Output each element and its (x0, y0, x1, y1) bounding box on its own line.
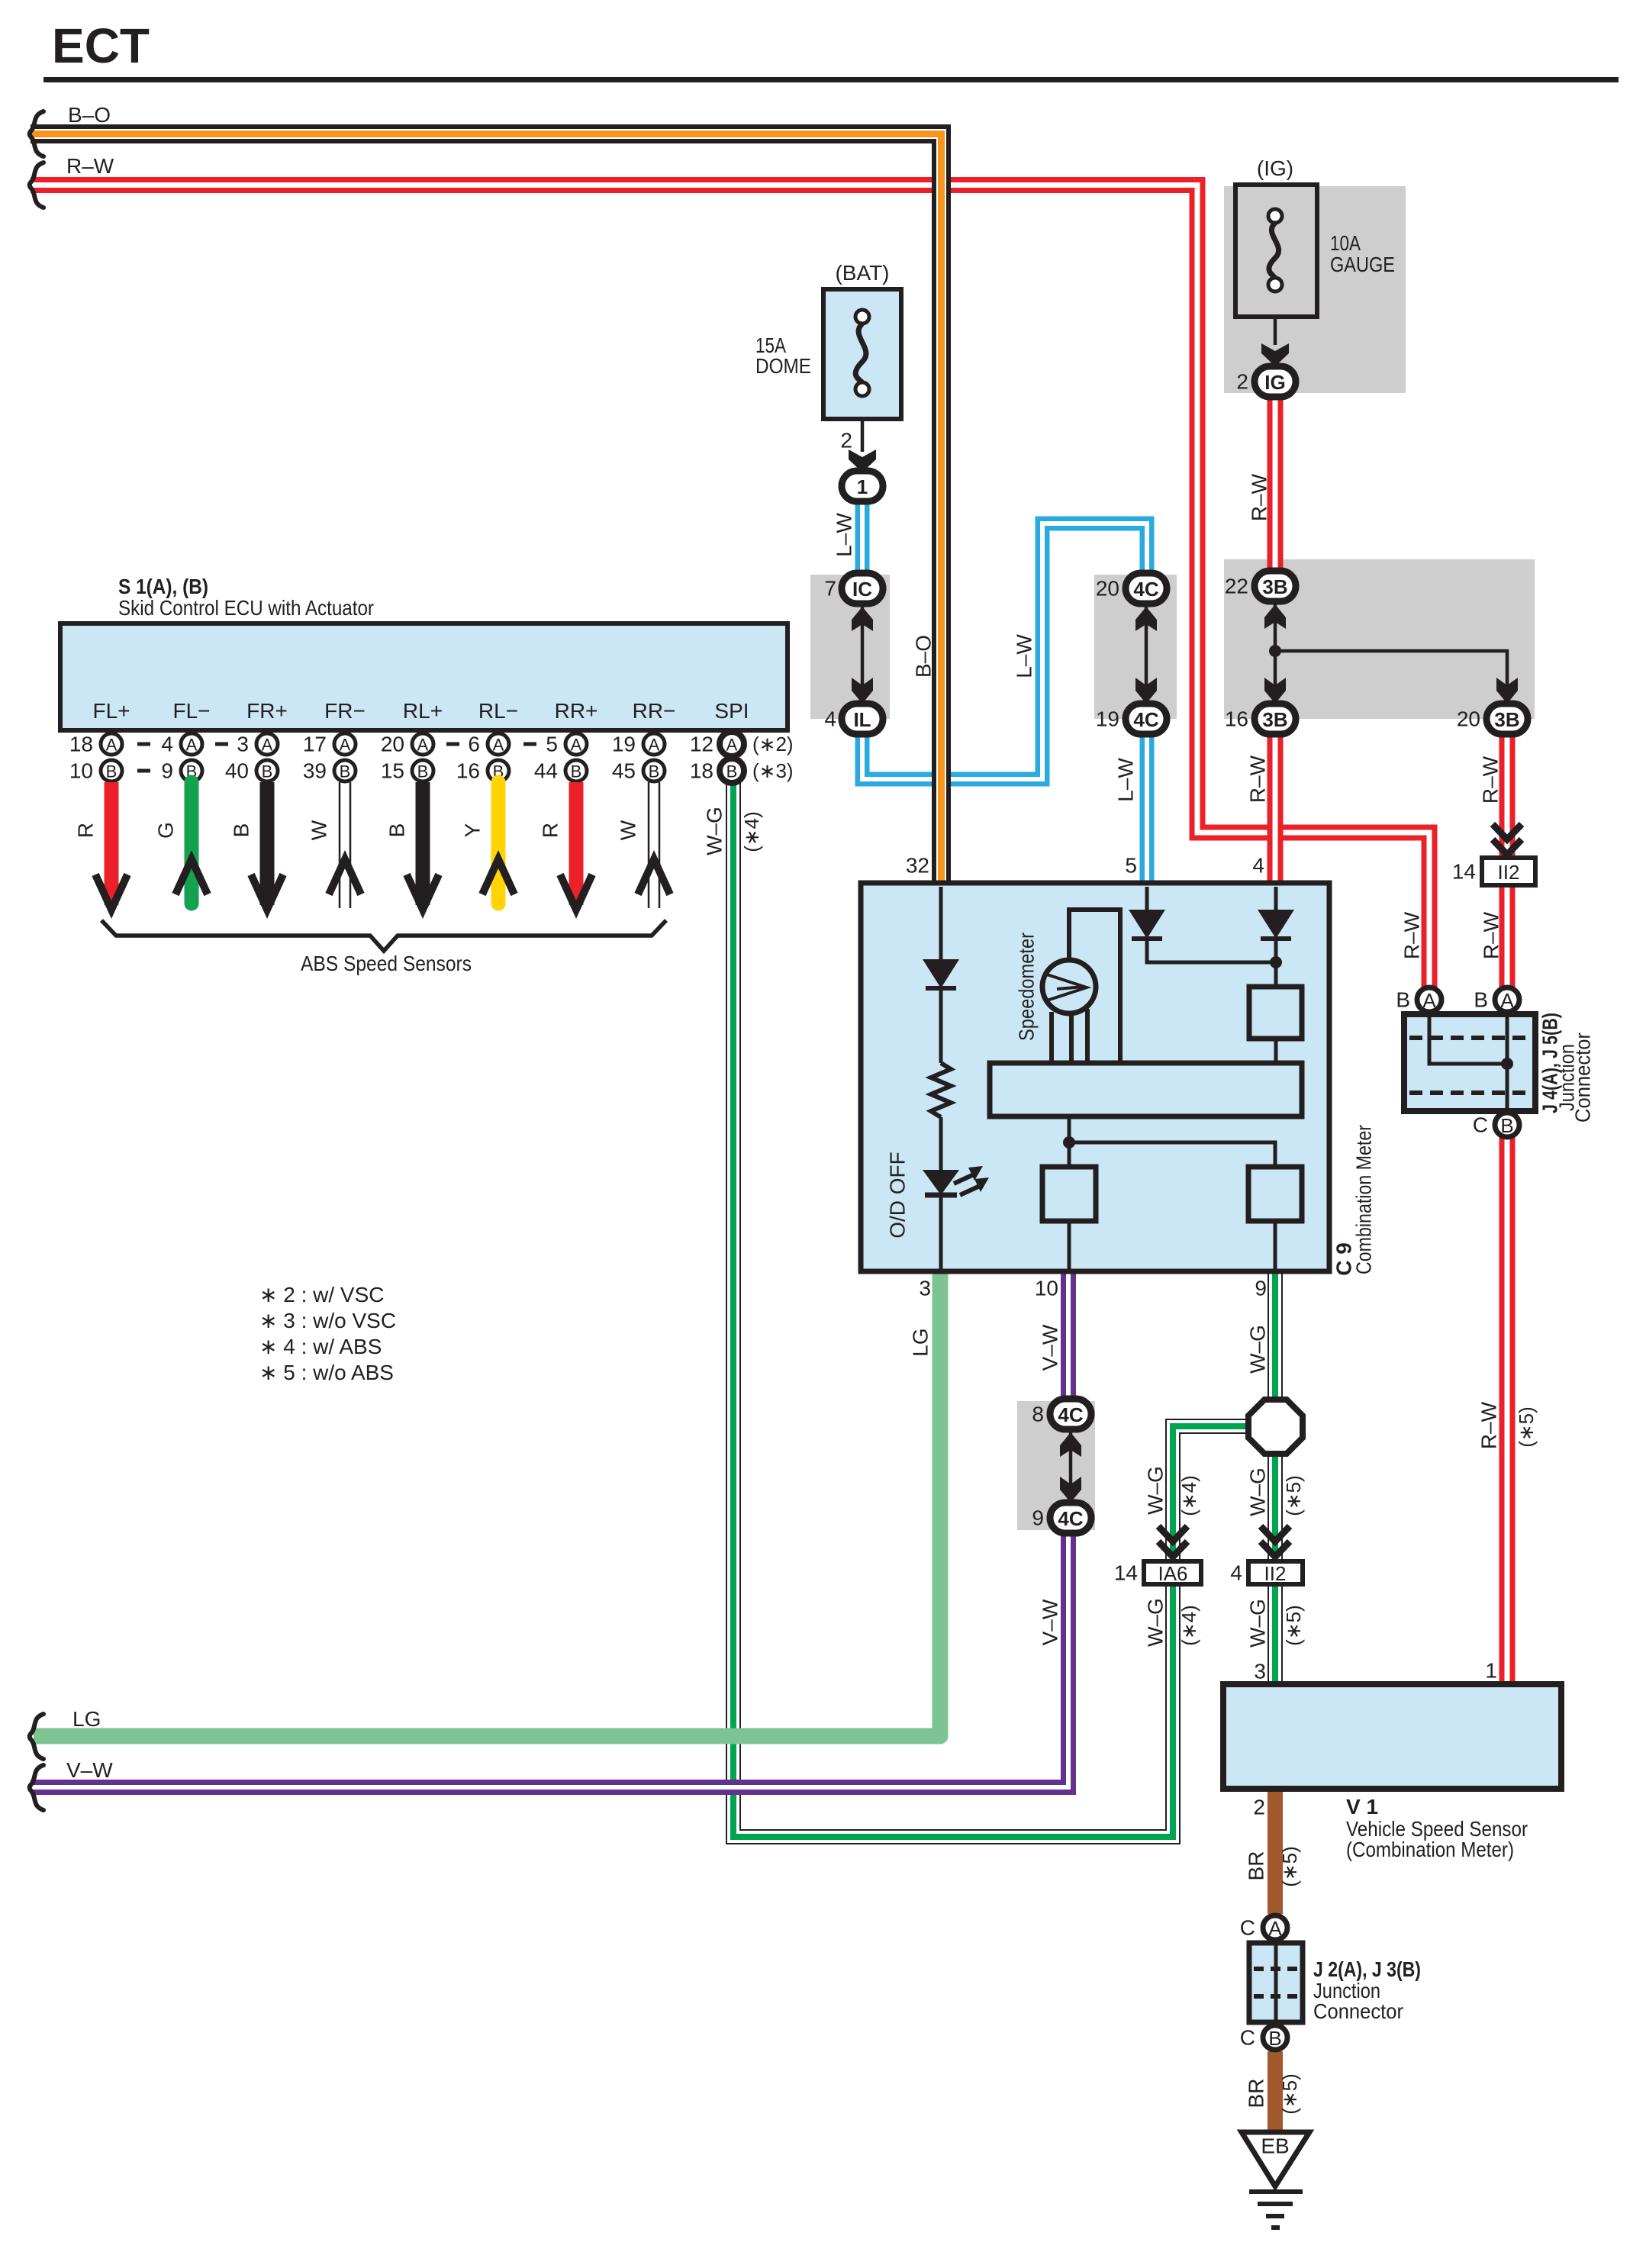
svg-text:4C: 4C (1133, 578, 1158, 601)
svg-text:A: A (1500, 989, 1514, 1012)
svg-text:R–W: R–W (1248, 473, 1271, 521)
svg-text:44: 44 (534, 759, 558, 783)
CONNECTORBLOCKS (824, 571, 1528, 1533)
svg-text:FR+: FR+ (246, 699, 288, 723)
svg-text:18: 18 (690, 759, 713, 783)
LEFTLABELS (30, 103, 114, 1810)
svg-text:ABS Speed Sensors: ABS Speed Sensors (301, 952, 472, 975)
V1BLOCK (1223, 1659, 1561, 1862)
svg-text:ECT: ECT (52, 18, 150, 73)
svg-text:12: 12 (690, 733, 713, 756)
gray block 3B (1224, 559, 1535, 719)
V1 vehicle speed sensor block (1223, 1684, 1561, 1789)
svg-text:W–G: W–G (1246, 1325, 1270, 1374)
svg-text:B: B (1474, 988, 1488, 1012)
svg-text:RL+: RL+ (403, 699, 443, 723)
connector IA6 (1114, 1561, 1201, 1586)
svg-text:3: 3 (919, 1277, 931, 1300)
svg-text:9: 9 (161, 759, 173, 783)
svg-text:10: 10 (69, 759, 93, 783)
wire box to pin 10 (1068, 1221, 1071, 1269)
svg-text:3: 3 (1254, 1660, 1266, 1683)
ECUPINS (92, 699, 749, 723)
wire L-W BAT fuse to IC (855, 498, 870, 576)
svg-text:R: R (539, 823, 562, 838)
wire box to bar (1274, 1039, 1278, 1063)
svg-text:IG: IG (1264, 371, 1285, 394)
JUNCTION45 (1396, 987, 1594, 1137)
connector IC/IL (824, 573, 883, 734)
wire V-W meter pin 10 to 4C(8) (1061, 1267, 1076, 1400)
svg-text:4C: 4C (1133, 708, 1158, 731)
svg-text:W–G: W–G (1246, 1599, 1270, 1648)
svg-text:7: 7 (824, 577, 836, 601)
dashed line lower j23 (1254, 1994, 1298, 1999)
svg-text:14: 14 (1452, 860, 1476, 884)
wire B FR+ (230, 782, 284, 910)
wire BR V1 pin 2 to junction A (1268, 1789, 1283, 1914)
svg-text:SPI: SPI (714, 699, 749, 723)
meter pin 5 line (1145, 887, 1149, 910)
svg-text:B: B (385, 823, 409, 838)
wire Y RL- (461, 782, 515, 904)
ECUWIRES (74, 782, 764, 975)
wire B-O horizontal and down to meter pin 32 (31, 134, 942, 886)
internal wire left (1429, 1017, 1507, 1064)
svg-text:32: 32 (906, 854, 929, 878)
ECUCIRCLES (69, 732, 794, 783)
svg-text:BR: BR (1245, 1851, 1268, 1881)
TITLE (43, 18, 1619, 82)
ECU S1 block (60, 623, 788, 730)
svg-text:4: 4 (161, 733, 173, 756)
speedometer (1042, 960, 1096, 1013)
box upper right (1249, 987, 1302, 1039)
wire L-W IL to 4C(20) routed around (862, 524, 1147, 779)
svg-text:A: A (340, 736, 351, 755)
wire R RR+ (539, 782, 593, 910)
wire W-G octagon down to II2(4) (1268, 1452, 1283, 1563)
svg-text:∗ 3 : w/o VSC: ∗ 3 : w/o VSC (259, 1309, 396, 1332)
NOTES (259, 1283, 396, 1384)
svg-text:B: B (1500, 1114, 1513, 1137)
wire V-W 4C(9) down and left to edge (31, 1532, 1068, 1787)
svg-text:(∗2): (∗2) (752, 733, 794, 755)
chevron IA6 (1158, 1526, 1187, 1557)
svg-text:DOME: DOME (755, 354, 811, 378)
svg-text:IA6: IA6 (1158, 1562, 1187, 1585)
svg-text:2: 2 (1253, 1796, 1265, 1819)
fuse 10A GAUGE (IG) (1235, 156, 1395, 397)
svg-text:C: C (1240, 2026, 1255, 2050)
svg-text:A: A (106, 736, 118, 755)
pin circle A right (1495, 987, 1519, 1012)
svg-text:A: A (186, 736, 198, 755)
connector II2 14 (1452, 858, 1535, 885)
svg-text:5: 5 (1125, 854, 1137, 878)
wire R-W II2(14) to junction connector A right (1499, 885, 1516, 987)
wire B RL+ (385, 782, 440, 910)
svg-text:A: A (493, 736, 504, 755)
internal bar (990, 1063, 1302, 1116)
pin dashes (137, 744, 536, 771)
svg-text:Speedometer: Speedometer (1015, 933, 1039, 1041)
pin numbers row B (69, 759, 794, 783)
svg-text:BR: BR (1245, 2079, 1268, 2109)
svg-text:IC: IC (852, 578, 872, 601)
svg-text:L–W: L–W (1114, 758, 1138, 802)
svg-text:8: 8 (1032, 1403, 1044, 1426)
svg-text:R: R (74, 823, 98, 838)
wire bar down (1068, 1116, 1071, 1167)
internal wire right (1506, 1017, 1509, 1108)
pin circle A left (1417, 987, 1441, 1012)
box lower left (1042, 1167, 1096, 1221)
svg-text:B: B (649, 762, 660, 781)
junction connector J2 J3 block (1249, 1943, 1303, 2022)
ground EB triangle (1242, 2132, 1309, 2186)
wires speedometer to bar (1052, 1009, 1087, 1063)
wire W RR- (617, 782, 671, 908)
svg-text:4: 4 (1252, 854, 1264, 878)
svg-text:FL+: FL+ (92, 699, 130, 723)
diode D2 pin5 (1129, 910, 1165, 939)
svg-text:L–W: L–W (1013, 634, 1036, 678)
svg-text:W–G: W–G (703, 807, 726, 855)
svg-text:1: 1 (1485, 1659, 1497, 1683)
wire G FL- (154, 782, 208, 904)
svg-text:B–O: B–O (68, 103, 111, 127)
svg-text:L–W: L–W (833, 513, 856, 557)
svg-text:B: B (571, 762, 582, 781)
ECU (60, 575, 788, 730)
wire R-W (*5) junction connector B to V1 pin 1 (1499, 1137, 1516, 1687)
box lower right (1248, 1167, 1302, 1221)
wire W-G II2(4) to V1 pin 3 (1268, 1585, 1283, 1687)
svg-text:B: B (417, 762, 429, 781)
dashed line upper (1409, 1036, 1530, 1040)
svg-text:4: 4 (1230, 1561, 1242, 1585)
connector II2 4 (1230, 1561, 1303, 1586)
meter pin 32 line (939, 887, 943, 959)
svg-text:(IG): (IG) (1257, 156, 1293, 180)
wire diode D2 to node (1147, 939, 1276, 962)
svg-text:9: 9 (1032, 1506, 1044, 1530)
junction connector J4 J5 block (1404, 1014, 1535, 1111)
svg-text:Connector: Connector (1571, 1033, 1595, 1123)
fuse 15A DOME (BAT) (755, 261, 901, 501)
svg-text:R–W: R–W (1480, 911, 1503, 959)
GROUND (1242, 2132, 1309, 2228)
svg-text:3: 3 (237, 733, 249, 756)
WIRELABELS (833, 473, 1538, 2114)
wire box to pin 9 (1274, 1221, 1277, 1269)
svg-text:(∗5): (∗5) (1282, 1475, 1305, 1516)
svg-text:(∗5): (∗5) (1278, 1846, 1301, 1887)
combination meter C9 block (861, 883, 1329, 1271)
svg-text:C: C (1240, 1916, 1255, 1940)
wire R-W 3B(20) to II2 chevron (1499, 733, 1516, 858)
svg-text:II2: II2 (1264, 1562, 1287, 1585)
gray block IC/IL (810, 575, 890, 719)
pin numbers row A (69, 733, 794, 756)
svg-text:(Combination Meter): (Combination Meter) (1346, 1838, 1514, 1861)
brace LG (30, 1714, 43, 1759)
svg-text:B: B (726, 762, 738, 781)
wire R-W main horizontal to junction connector A (31, 185, 1429, 988)
svg-text:14: 14 (1114, 1561, 1138, 1585)
pin circles row B (101, 759, 744, 783)
svg-text:A: A (571, 736, 582, 755)
svg-text:A: A (417, 736, 429, 755)
wire BR junction B to EB ground (1268, 2051, 1283, 2132)
svg-text:9: 9 (1255, 1277, 1267, 1300)
svg-text:10A: 10A (1330, 231, 1361, 255)
svg-text:Combination Meter: Combination Meter (1352, 1125, 1376, 1274)
svg-text:1: 1 (857, 475, 868, 498)
svg-text:R–W: R–W (1246, 755, 1270, 803)
svg-text:V–W: V–W (1039, 1599, 1062, 1645)
svg-text:Connector: Connector (1313, 1999, 1403, 2023)
svg-text:20: 20 (1457, 707, 1480, 731)
svg-text:V–W: V–W (66, 1758, 113, 1782)
svg-text:15: 15 (381, 759, 404, 783)
dashed line lower (1409, 1091, 1530, 1095)
svg-text:W: W (617, 820, 640, 840)
svg-text:(∗4): (∗4) (740, 811, 763, 852)
wire W FR- (308, 782, 362, 908)
resistor (931, 1063, 951, 1117)
chevron II2 4 (1261, 1526, 1290, 1557)
svg-text:(∗4): (∗4) (1177, 1605, 1200, 1646)
FUSES (755, 156, 1395, 501)
gray block IG fuse (1224, 186, 1406, 393)
node dot pin4 (1270, 956, 1282, 968)
brace V-W (30, 1765, 43, 1810)
connector 4C 20/19 (1096, 573, 1167, 734)
svg-text:S 1(A), (B): S 1(A), (B) (118, 575, 208, 598)
wire to resistor (939, 988, 943, 1063)
wire R-W IG oval to 3B(22) (1268, 395, 1284, 572)
svg-text:19: 19 (612, 733, 636, 756)
svg-text:5: 5 (546, 733, 558, 756)
svg-text:B: B (230, 823, 253, 838)
octagon splice (1248, 1400, 1303, 1454)
ground bars (1249, 2189, 1303, 2194)
svg-text:Skid Control ECU with Actuator: Skid Control ECU with Actuator (118, 596, 374, 620)
svg-text:A: A (1268, 1917, 1282, 1940)
svg-text:B: B (340, 762, 351, 781)
svg-text:∗ 5 : w/o ABS: ∗ 5 : w/o ABS (259, 1361, 394, 1384)
wire node to right box (1069, 1142, 1275, 1167)
node dot below bar (1063, 1136, 1075, 1148)
svg-text:∗ 2 : w/ VSC: ∗ 2 : w/ VSC (259, 1283, 385, 1306)
svg-text:3B: 3B (1262, 575, 1287, 598)
svg-text:16: 16 (1225, 707, 1248, 731)
METER (861, 883, 1376, 1276)
svg-text:LG: LG (72, 1707, 101, 1731)
svg-text:(BAT): (BAT) (835, 261, 889, 285)
svg-text:2: 2 (840, 429, 852, 453)
svg-text:B: B (1396, 988, 1410, 1012)
internal vertical line j23 (1274, 1943, 1278, 2022)
pin circles row A (101, 732, 744, 756)
svg-text:R–W: R–W (1477, 1401, 1501, 1449)
svg-text:20: 20 (381, 733, 404, 756)
svg-text:40: 40 (225, 759, 249, 783)
svg-text:20: 20 (1096, 577, 1119, 601)
svg-text:4C: 4C (1058, 1403, 1083, 1426)
svg-text:RL−: RL− (478, 699, 518, 723)
svg-text:10: 10 (1035, 1277, 1058, 1300)
wire diode D3 down (1274, 939, 1278, 987)
connector 4C 8/9 lower (1032, 1399, 1091, 1533)
title rule (43, 77, 1619, 82)
svg-text:4C: 4C (1058, 1507, 1083, 1530)
svg-text:19: 19 (1096, 707, 1119, 731)
svg-text:II2: II2 (1498, 861, 1520, 884)
svg-text:V 1: V 1 (1346, 1795, 1378, 1819)
gray block 4C top (1094, 575, 1177, 719)
svg-text:W: W (308, 820, 331, 840)
svg-text:Y: Y (461, 823, 485, 837)
svg-text:W–G: W–G (1246, 1467, 1270, 1516)
svg-text:17: 17 (303, 733, 327, 756)
svg-text:FR−: FR− (324, 699, 366, 723)
GRAYRECTS (810, 186, 1535, 1530)
wire W-G (*4) SPI B to IA6 routed bottom (733, 782, 1173, 1837)
svg-text:G: G (154, 822, 178, 839)
diode D3 pin4 (1258, 910, 1294, 939)
svg-text:∗ 4 : w/ ABS: ∗ 4 : w/ ABS (259, 1335, 382, 1358)
svg-text:4: 4 (824, 707, 836, 731)
svg-text:B–O: B–O (912, 635, 936, 678)
wire LED to pin 3 (939, 1197, 943, 1269)
svg-text:A: A (262, 736, 273, 755)
svg-text:LG: LG (909, 1328, 933, 1356)
svg-text:GAUGE: GAUGE (1330, 253, 1395, 276)
wire LG meter pin 3 to left edge (34, 1267, 940, 1736)
svg-text:3B: 3B (1262, 708, 1287, 731)
METERINTERNALS (886, 887, 1303, 1269)
svg-text:18: 18 (69, 733, 93, 756)
svg-text:W–G: W–G (1144, 1598, 1168, 1647)
svg-text:A: A (1422, 989, 1436, 1012)
wire to LED (939, 1117, 943, 1170)
internal node dot (1501, 1058, 1513, 1070)
svg-text:22: 22 (1225, 575, 1248, 598)
gray block 4C lower (1017, 1401, 1095, 1530)
svg-text:C: C (1473, 1113, 1488, 1137)
svg-text:FL−: FL− (172, 699, 210, 723)
wire W-G octagon left branch to IA6 (1173, 1426, 1250, 1563)
meter pin 4 line (1274, 887, 1278, 910)
pin circle A j23 (1263, 1915, 1287, 1940)
diode D1 O/D (923, 959, 959, 988)
svg-text:B: B (1268, 2027, 1281, 2050)
brace R-W (30, 163, 43, 208)
svg-text:3B: 3B (1494, 708, 1519, 731)
svg-text:B: B (262, 762, 273, 781)
svg-text:EB: EB (1261, 2134, 1289, 2158)
LED O/D OFF (923, 1166, 989, 1195)
wire R-W 3B(16) to meter pin 4 (1268, 733, 1284, 885)
chevron II2 14 (1493, 824, 1522, 855)
brace B-O (30, 111, 43, 156)
svg-text:(∗5): (∗5) (1278, 2073, 1301, 2115)
svg-text:IL: IL (853, 708, 871, 731)
wire speedometer top loop (1069, 910, 1120, 1063)
svg-text:RR−: RR− (633, 699, 676, 723)
svg-text:2: 2 (1236, 370, 1248, 394)
pin circle B j23 (1263, 2025, 1287, 2050)
brace ABS (101, 920, 666, 951)
wire W-G (*5) meter pin 9 to octagon (1268, 1267, 1283, 1401)
JUNCTION23 (1240, 1915, 1421, 2050)
svg-text:O/D OFF: O/D OFF (886, 1152, 910, 1239)
svg-text:R–W: R–W (1479, 755, 1503, 804)
svg-text:39: 39 (303, 759, 327, 783)
svg-text:(∗5): (∗5) (1515, 1406, 1538, 1448)
svg-text:16: 16 (456, 759, 480, 783)
svg-text:A: A (726, 736, 738, 755)
pin circle B bottom (1495, 1113, 1519, 1137)
svg-text:V–W: V–W (1039, 1324, 1062, 1371)
dashed line upper j23 (1254, 1967, 1298, 1971)
svg-text:R–W: R–W (66, 154, 114, 178)
connector 3B 22/16/20 (1225, 571, 1528, 734)
svg-text:J 2(A), J 3(B): J 2(A), J 3(B) (1313, 1957, 1421, 1981)
svg-text:W–G: W–G (1144, 1466, 1168, 1515)
METERPINS (906, 854, 1267, 1300)
wire L-W 4C(19) to meter pin 5 (1140, 733, 1155, 885)
wire R FL+ (74, 782, 128, 910)
svg-text:45: 45 (612, 759, 636, 783)
svg-text:(∗4): (∗4) (1177, 1475, 1200, 1516)
svg-text:6: 6 (468, 733, 480, 756)
svg-text:(∗5): (∗5) (1282, 1605, 1305, 1646)
svg-text:R–W: R–W (1400, 911, 1424, 959)
svg-text:A: A (649, 736, 660, 755)
svg-text:(∗3): (∗3) (752, 759, 794, 782)
svg-text:RR+: RR+ (555, 699, 598, 723)
svg-text:B: B (106, 762, 118, 781)
MIDCONNECTORS (1114, 824, 1535, 1585)
